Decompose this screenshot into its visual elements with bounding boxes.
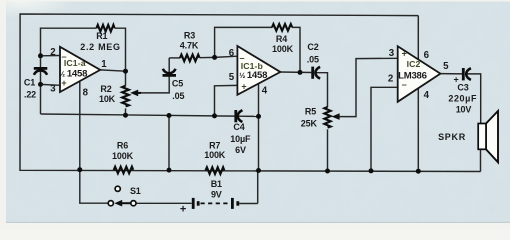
svg-text:1: 1: [101, 59, 107, 70]
svg-text:S1: S1: [130, 186, 141, 196]
svg-text:220µF: 220µF: [448, 93, 477, 103]
svg-text:C4: C4: [233, 122, 244, 132]
svg-text:R4: R4: [276, 34, 287, 44]
svg-text:C5: C5: [172, 78, 183, 88]
svg-text:2: 2: [388, 74, 393, 85]
svg-text:100K: 100K: [204, 150, 226, 160]
svg-text:.22: .22: [24, 89, 36, 99]
svg-text:6: 6: [229, 48, 235, 59]
svg-text:+: +: [402, 49, 407, 59]
svg-text:R7: R7: [209, 140, 220, 150]
svg-text:1458: 1458: [247, 70, 268, 81]
svg-text:–: –: [61, 52, 66, 62]
svg-text:2: 2: [50, 47, 55, 58]
svg-text:4: 4: [262, 85, 268, 96]
svg-text:5: 5: [229, 72, 235, 83]
svg-text:4: 4: [424, 90, 430, 101]
svg-text:R2: R2: [100, 84, 111, 94]
svg-text:6: 6: [424, 50, 430, 61]
svg-text:.05: .05: [307, 55, 319, 65]
svg-text:3: 3: [50, 84, 56, 95]
svg-text:B1: B1: [211, 179, 222, 189]
svg-text:2.2 MEG: 2.2 MEG: [80, 42, 120, 52]
svg-text:SPKR: SPKR: [438, 132, 466, 142]
svg-text:+: +: [180, 204, 186, 216]
svg-text:–: –: [402, 80, 407, 90]
svg-text:C2: C2: [307, 42, 318, 52]
svg-text:100K: 100K: [112, 151, 134, 161]
svg-text:R5: R5: [305, 107, 316, 117]
svg-text:IC1-a: IC1-a: [64, 58, 86, 68]
svg-text:8: 8: [83, 87, 89, 98]
svg-text:1458: 1458: [67, 69, 88, 80]
svg-text:25K: 25K: [301, 118, 318, 128]
svg-text:.05: .05: [172, 91, 184, 101]
svg-text:+: +: [241, 82, 246, 92]
svg-text:–: –: [239, 53, 244, 63]
svg-text:3: 3: [389, 48, 395, 59]
svg-text:R1: R1: [96, 31, 107, 41]
svg-text:IC2: IC2: [407, 59, 421, 69]
svg-text:10K: 10K: [99, 94, 116, 104]
svg-text:10µF: 10µF: [230, 134, 251, 144]
svg-text:100K: 100K: [272, 44, 294, 54]
svg-text:10V: 10V: [456, 104, 472, 114]
svg-text:+: +: [453, 75, 458, 85]
svg-text:6V: 6V: [235, 145, 246, 155]
svg-text:C1: C1: [24, 77, 35, 87]
svg-text:½: ½: [239, 71, 245, 80]
svg-text:R3: R3: [184, 30, 195, 40]
svg-text:C3: C3: [457, 83, 468, 93]
svg-text:4.7K: 4.7K: [180, 41, 199, 51]
svg-text:5: 5: [443, 61, 449, 72]
svg-text:9V: 9V: [211, 190, 222, 200]
svg-text:R6: R6: [117, 140, 128, 150]
svg-text:+: +: [61, 78, 66, 88]
